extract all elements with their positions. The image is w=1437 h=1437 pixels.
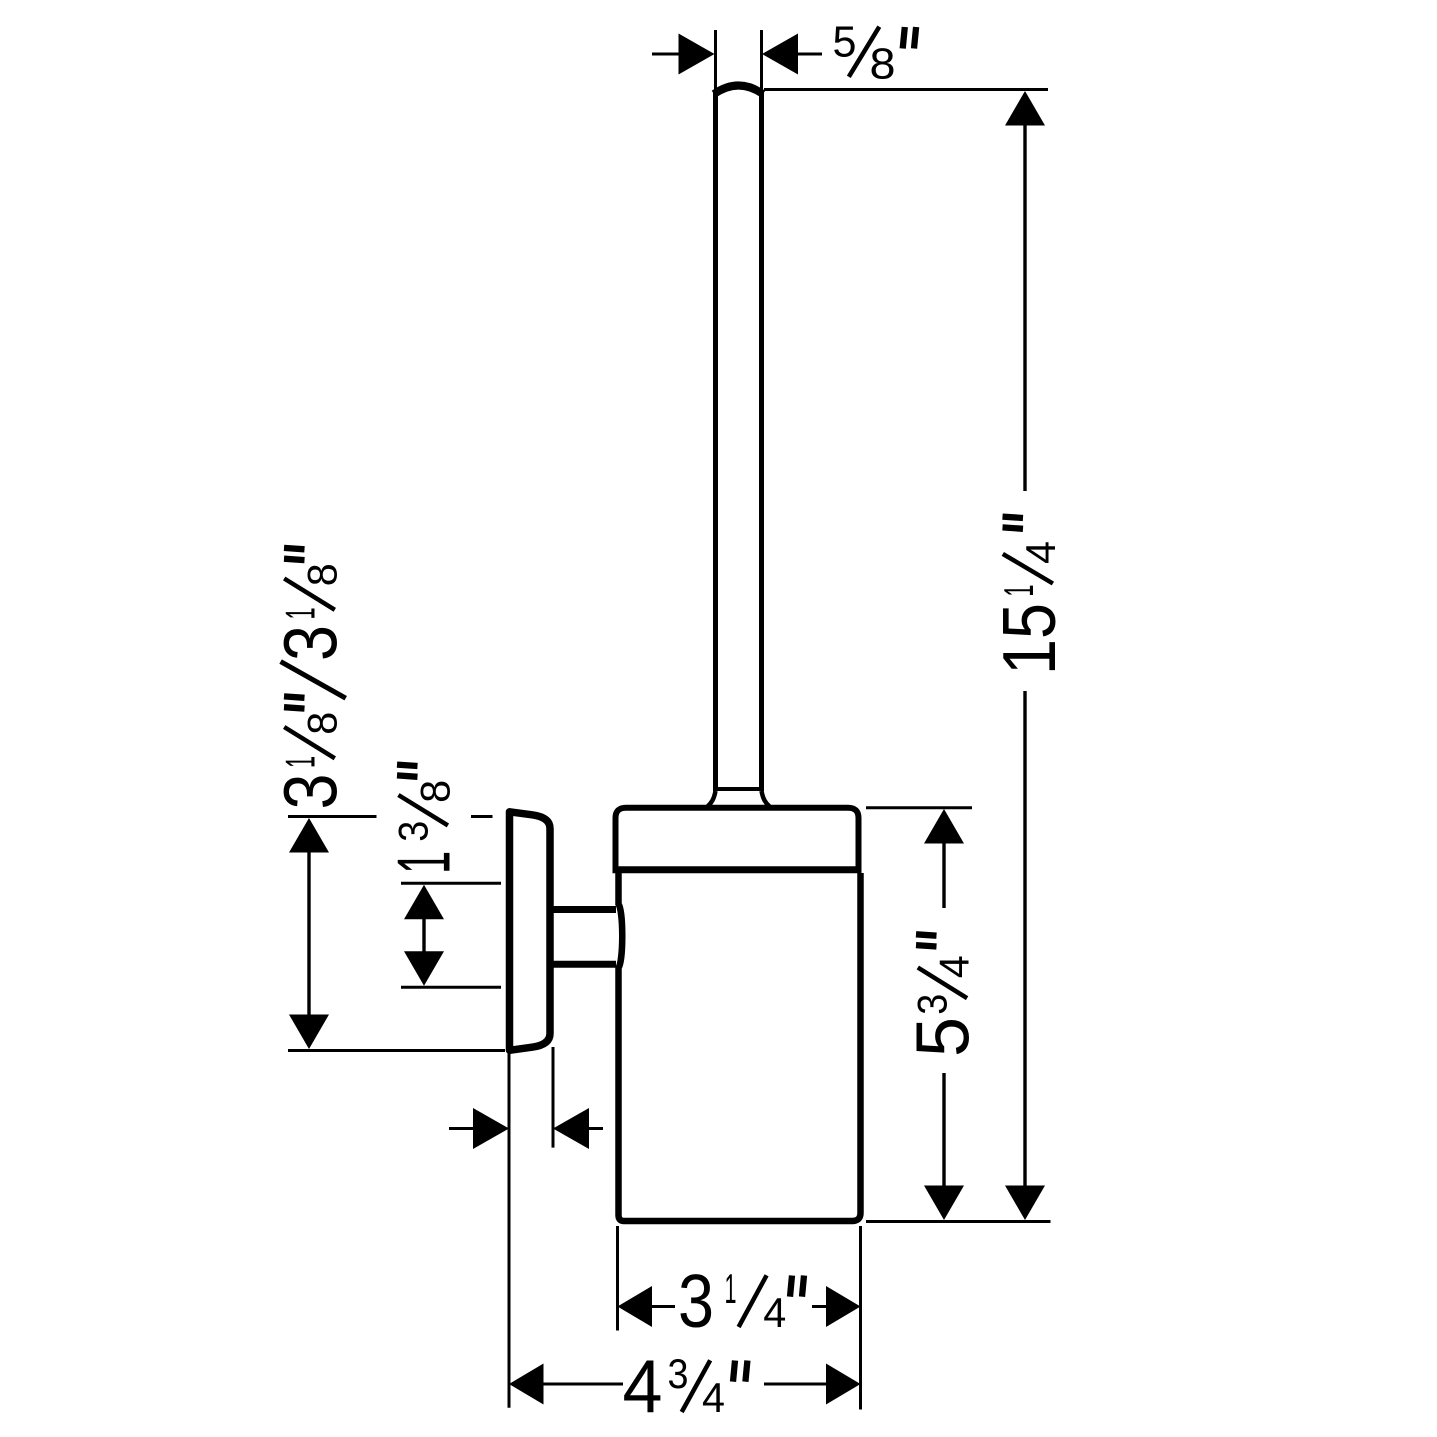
wire extension line right of rod bbox=[760, 30, 763, 89]
arrow 15 1/4 down bbox=[1005, 1186, 1045, 1221]
svg-text:4: 4 bbox=[763, 1289, 786, 1336]
tick line bottom of 1 3/8 dim bbox=[401, 986, 501, 989]
svg-text:4: 4 bbox=[623, 1344, 663, 1428]
wire tail 4 3/4 left bbox=[541, 1383, 623, 1386]
wire 3 1/8 shaft bbox=[307, 851, 310, 1017]
inch marks of 15 1/4 label bbox=[1003, 527, 1024, 528]
svg-text:15: 15 bbox=[987, 603, 1071, 675]
extension line plate left bbox=[508, 1052, 511, 1408]
svg-text:8: 8 bbox=[412, 780, 459, 803]
extension line 5 3/4 top bbox=[866, 806, 972, 809]
svg-text:5: 5 bbox=[833, 18, 857, 67]
wire extension line left of rod bbox=[714, 30, 717, 89]
inch marks of 1 3/8 label bbox=[397, 775, 418, 776]
separator slash bbox=[281, 662, 346, 699]
lid rim thick line bbox=[613, 866, 862, 873]
inch marks of 3 1/4 label bbox=[790, 1276, 792, 1297]
arrow plate thickness right (points left) bbox=[553, 1108, 589, 1149]
svg-text:3: 3 bbox=[909, 994, 956, 1015]
arrow 5 3/4 up bbox=[924, 809, 964, 844]
inch marks of 3 1/8 / 3 1/8 label bbox=[284, 707, 305, 708]
svg-text:4: 4 bbox=[931, 955, 978, 978]
svg-text:3: 3 bbox=[269, 774, 353, 810]
svg-text:1: 1 bbox=[277, 608, 324, 620]
arrow 15 1/4 up bbox=[1005, 91, 1045, 126]
arrow 4 3/4 right (points right) bbox=[826, 1364, 861, 1405]
wire 1 3/8 shaft bbox=[422, 917, 425, 953]
arrow 4 3/4 left (points left) bbox=[509, 1364, 544, 1405]
tick line bottom of 3 1/8 dim bbox=[288, 1049, 505, 1052]
svg-text:8: 8 bbox=[299, 563, 346, 586]
slash of 15 1/4 fraction bbox=[1003, 554, 1053, 584]
svg-text:3: 3 bbox=[269, 625, 353, 661]
arrow 5/8 left (points right) bbox=[679, 34, 715, 75]
label 15 1/4 rotated bbox=[987, 541, 1071, 675]
label 5 3/4 rotated bbox=[901, 955, 985, 1057]
inch marks of 4 3/4 label bbox=[733, 1361, 735, 1382]
extension line 15 1/4 bottom bbox=[866, 1220, 1051, 1223]
extension line 3 1/4 and 4 3/4 right bbox=[859, 1226, 862, 1410]
extension line 15 1/4 top bbox=[764, 88, 1048, 91]
slash of 5/8 fraction bbox=[849, 27, 880, 77]
svg-text:1: 1 bbox=[382, 851, 466, 874]
arrow 3 1/4 right (points right) bbox=[826, 1286, 861, 1327]
wire tail 3 1/4 right bbox=[812, 1305, 829, 1308]
svg-text:1: 1 bbox=[277, 756, 324, 768]
label 3 1/8 / 3 1/8 rotated bbox=[269, 563, 353, 809]
svg-text:4: 4 bbox=[1017, 541, 1064, 564]
brush handle rod left wall bbox=[713, 90, 718, 789]
svg-text:8: 8 bbox=[299, 712, 346, 735]
wire tail 4 3/4 right bbox=[764, 1383, 829, 1386]
arrow 5 3/4 down bbox=[924, 1186, 964, 1221]
inch marks of 5 3/4 label bbox=[916, 945, 937, 946]
svg-text:3: 3 bbox=[678, 1259, 714, 1343]
wire 5 3/4 shaft lower bbox=[942, 1073, 945, 1188]
mounting arm bottom line bbox=[553, 961, 616, 968]
wire tail plate thickness right bbox=[586, 1127, 603, 1130]
slash of 3 1/4 fraction bbox=[739, 1275, 767, 1327]
label 3 1/4 bbox=[678, 1259, 786, 1343]
slash of upper 3 1/8 fraction bbox=[284, 579, 335, 610]
wire tail plate thickness left bbox=[449, 1127, 476, 1130]
tick line top of 3 1/8 dim (segment a) bbox=[288, 815, 377, 818]
tick line top of 1 3/8 dim bbox=[401, 882, 501, 885]
svg-text:5: 5 bbox=[901, 1017, 985, 1057]
svg-text:4: 4 bbox=[702, 1374, 725, 1421]
arrow 3 1/4 left (points left) bbox=[618, 1286, 653, 1327]
wire 5 3/4 shaft upper bbox=[942, 842, 945, 909]
arrow 1 3/8 up bbox=[404, 885, 444, 920]
arrow 1 3/8 down bbox=[404, 951, 444, 986]
extension line 3 1/4 left bbox=[616, 1226, 619, 1331]
label 1 3/8 rotated bbox=[382, 780, 466, 874]
holder lid outline bbox=[616, 808, 859, 871]
wire tail 3 1/4 left bbox=[650, 1305, 675, 1308]
arrow 3 1/8 up bbox=[289, 818, 329, 853]
wire 15 1/4 shaft upper bbox=[1023, 124, 1026, 492]
mounting arm top line bbox=[553, 906, 616, 913]
arrow plate thickness left (points right) bbox=[473, 1108, 509, 1149]
svg-text:1: 1 bbox=[725, 1265, 737, 1312]
inch marks of 5/8 label bbox=[903, 27, 905, 49]
rod taper right bbox=[762, 791, 770, 807]
extension line plate right bbox=[552, 1047, 555, 1148]
label 4 3/4 bbox=[623, 1344, 726, 1428]
wire tail 5/8 right bbox=[795, 53, 822, 56]
arrow 5/8 right (points left) bbox=[762, 34, 798, 75]
slash of 4 3/4 fraction bbox=[682, 1360, 711, 1412]
rod joint line bbox=[713, 787, 764, 791]
slash of 5 3/4 fraction bbox=[918, 968, 967, 999]
label 5/8 inch bbox=[833, 18, 896, 89]
rod taper left bbox=[708, 791, 716, 807]
arrow 3 1/8 down bbox=[289, 1015, 329, 1050]
svg-text:8: 8 bbox=[870, 39, 896, 88]
brush handle rod right wall bbox=[759, 90, 764, 789]
rod top cap bbox=[714, 86, 763, 95]
slash of lower 3 1/8 fraction bbox=[284, 727, 335, 758]
svg-text:1: 1 bbox=[995, 585, 1042, 597]
svg-text:3: 3 bbox=[390, 821, 437, 842]
wire 15 1/4 shaft lower bbox=[1023, 691, 1026, 1188]
wire tail 5/8 left bbox=[652, 53, 681, 56]
wall plate bbox=[510, 812, 551, 1051]
svg-text:3: 3 bbox=[668, 1350, 689, 1397]
slash of 1 3/8 fraction bbox=[398, 795, 448, 825]
tick line top of 3 1/8 dim (segment b) bbox=[471, 815, 493, 818]
holder cup outline with arm bulge bbox=[619, 873, 861, 1221]
